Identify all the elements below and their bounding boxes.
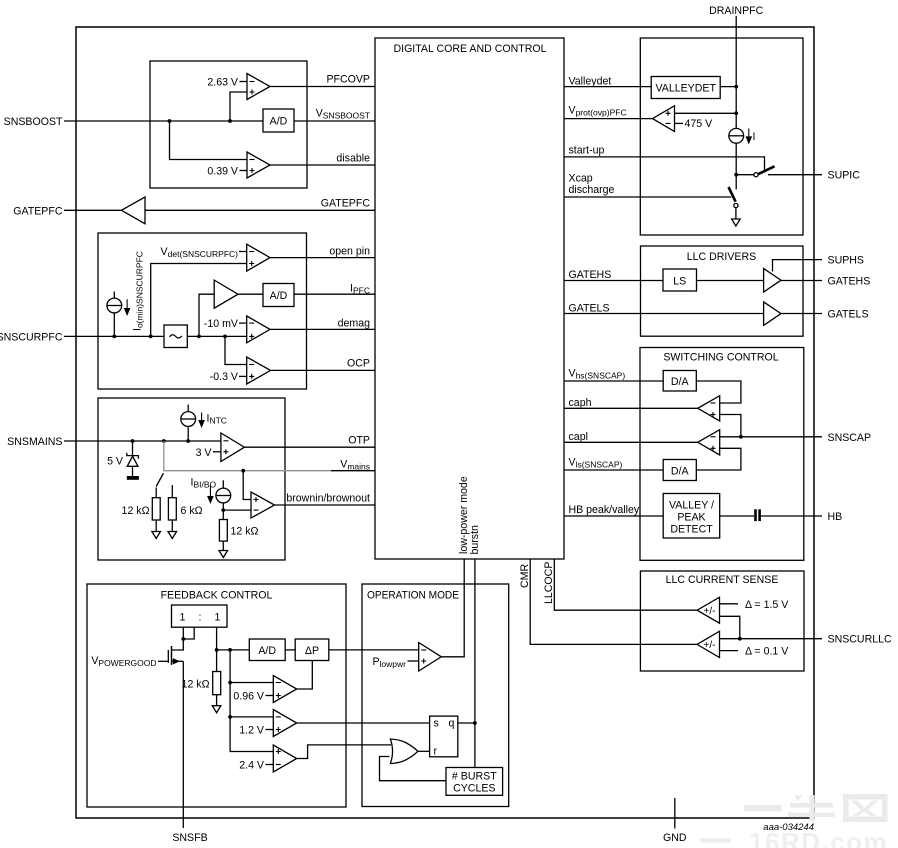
svg-text::: : xyxy=(199,612,202,624)
wire 0.39V lead xyxy=(240,170,248,172)
IC outer boundary xyxy=(76,27,814,818)
wire GATELS out xyxy=(781,313,822,315)
svg-text:s: s xyxy=(434,718,439,730)
wire 1.2 minus xyxy=(230,716,273,718)
wire LS to driver xyxy=(697,280,764,282)
wire Vmains gray riser xyxy=(164,441,331,471)
wire capl xyxy=(564,441,698,443)
sign minus 475V comp xyxy=(666,122,671,124)
sign minus caph comp xyxy=(711,402,716,404)
node junction 475V xyxy=(734,111,738,115)
wire Vdet plus riser xyxy=(151,264,247,337)
sign minus 0.39V comp xyxy=(250,159,255,161)
current source INTC stub top xyxy=(187,405,189,412)
sign plus 475V comp xyxy=(666,111,671,116)
svg-text:GATEHS: GATEHS xyxy=(569,269,612,281)
D/A converter low xyxy=(663,460,696,481)
zener diode 5V bar xyxy=(127,453,139,459)
svg-text:12 kΩ: 12 kΩ xyxy=(122,505,150,517)
svg-text:SNSCURPFC: SNSCURPFC xyxy=(0,331,63,343)
wire 6k to ground xyxy=(171,520,173,532)
resistor 12k bi/bo xyxy=(152,498,160,520)
sign plus 1.2V comp xyxy=(276,727,281,732)
LLC current sense block xyxy=(640,571,804,671)
node junction Vmains riser xyxy=(162,439,166,443)
mosfet gate plate xyxy=(167,650,169,663)
wire 2.4V out to OR xyxy=(297,745,391,759)
node junction mosfet drain xyxy=(181,637,185,641)
wire brownin out xyxy=(275,504,376,506)
svg-text:CYCLES: CYCLES xyxy=(453,783,495,795)
switch contact Xcap xyxy=(734,203,738,207)
wire Vls(SNSCAP) xyxy=(564,469,663,471)
wire disable xyxy=(270,164,375,166)
sign plus Vdet comp xyxy=(249,261,254,266)
wire GATELS core to driver xyxy=(564,313,764,315)
svg-text:+/-: +/- xyxy=(704,606,716,617)
wire VALLEYDET to drain xyxy=(720,86,736,88)
svg-text:Δ = 0.1 V: Δ = 0.1 V xyxy=(745,646,789,658)
watermark yi bar xyxy=(744,805,782,812)
wire 1:1 left pin U loop xyxy=(183,627,194,639)
wire Valleydet xyxy=(564,86,651,88)
svg-text:burstn: burstn xyxy=(469,525,481,555)
sign plus 2.63V comp xyxy=(250,90,255,95)
node junction 1.2 tap xyxy=(228,715,232,719)
mosfet gate lead xyxy=(158,660,168,662)
svg-text:5 V: 5 V xyxy=(107,456,124,468)
wire SNSMAINS main xyxy=(64,440,221,442)
wire low-power mode riser xyxy=(441,559,464,657)
wire demag out xyxy=(270,328,375,330)
sign minus 0.96V comp xyxy=(276,682,281,684)
wire 12k to ground xyxy=(155,520,157,532)
sign plus OCP comp xyxy=(249,374,254,379)
arrow I direction xyxy=(746,129,751,143)
wire GND stub xyxy=(674,798,676,829)
wire OR out to r xyxy=(418,750,430,752)
svg-text:SUPIC: SUPIC xyxy=(828,170,861,182)
svg-text:VALLEY /: VALLEY / xyxy=(669,500,714,512)
wire to 2.63V plus input xyxy=(230,92,247,121)
VALLEYDET box xyxy=(651,77,720,99)
wire Vdet lead xyxy=(239,251,247,253)
wire burst feedback loop xyxy=(380,757,447,781)
D/A converter high xyxy=(663,371,696,392)
current source HV xyxy=(729,128,744,143)
svg-text:SNSCAP: SNSCAP xyxy=(828,432,872,444)
svg-text:Valleydet: Valleydet xyxy=(569,76,612,88)
wire SNSCURLLC xyxy=(720,638,823,640)
svg-text:GND: GND xyxy=(663,832,687,844)
switching control block xyxy=(640,348,804,561)
comparator 0.39V xyxy=(247,152,270,178)
svg-text:GATEHS: GATEHS xyxy=(828,276,871,288)
svg-text:start-up: start-up xyxy=(569,145,605,157)
wire detect to cap xyxy=(720,515,754,517)
wire burstn line xyxy=(474,559,476,768)
wire LLCOCP xyxy=(554,559,697,610)
sign minus demag comp xyxy=(249,322,254,324)
wire drain below source xyxy=(735,143,737,189)
wire 2.4V lead xyxy=(266,764,274,766)
wire SNSBOOST main xyxy=(64,120,263,122)
wire deltaP to op mode xyxy=(329,649,419,651)
svg-text:A/D: A/D xyxy=(270,116,288,128)
svg-text:A/D: A/D xyxy=(258,645,276,657)
svg-text:SNSMAINS: SNSMAINS xyxy=(7,436,62,448)
arrow Io(min) direction xyxy=(125,299,130,314)
wire IPFC out xyxy=(294,293,375,295)
svg-text:Δ = 1.5 V: Δ = 1.5 V xyxy=(745,599,789,611)
wire 1.2V out to latch s xyxy=(297,722,430,724)
level shifter LS box xyxy=(663,269,697,291)
comparator caph xyxy=(698,396,720,421)
wire capl plus loop xyxy=(696,448,741,470)
comparator Vdet open pin xyxy=(247,244,270,271)
svg-text:GATELS: GATELS xyxy=(569,303,610,315)
svg-text:HB: HB xyxy=(828,511,843,523)
svg-text:q: q xyxy=(449,718,455,730)
node junction fb main xyxy=(215,648,219,652)
svg-text:SNSBOOST: SNSBOOST xyxy=(4,116,63,128)
svg-text:OPERATION MODE: OPERATION MODE xyxy=(367,590,459,602)
svg-text:brownin/brownout: brownin/brownout xyxy=(286,493,370,505)
svg-text:-0.3 V: -0.3 V xyxy=(210,371,239,383)
wire 0.96V out to deltaP xyxy=(297,661,313,690)
node junction current source xyxy=(112,335,116,339)
A/D converter SNSBOOST xyxy=(263,109,294,132)
wire 2.63V lead xyxy=(240,81,248,83)
wire 1.2V lead xyxy=(266,729,274,731)
wire 0.96V lead xyxy=(266,695,274,697)
wire caph xyxy=(564,407,698,409)
sign plus capl comp xyxy=(711,446,716,451)
wire SUPHS riser xyxy=(773,260,823,272)
svg-text:A/D: A/D xyxy=(270,290,288,302)
filter tilde symbol xyxy=(170,335,182,338)
wire OTP out xyxy=(244,446,375,448)
latch SR box xyxy=(430,716,458,757)
node junction burstn q xyxy=(473,721,477,725)
svg-text:DIGITAL CORE AND CONTROL: DIGITAL CORE AND CONTROL xyxy=(393,43,546,55)
wire fb node to A/D xyxy=(217,649,250,651)
buffer GATEHS driver xyxy=(764,269,781,293)
wire PFCOVP xyxy=(270,86,375,88)
mosfet drain lead xyxy=(172,639,184,650)
sign minus 1.2V comp xyxy=(276,716,281,718)
svg-text:SNSFB: SNSFB xyxy=(172,832,207,844)
filter box SNSCURPFC xyxy=(164,325,187,348)
wire VSNSBOOST out xyxy=(294,120,375,122)
comparator demag xyxy=(247,316,270,343)
A/D converter IPFC xyxy=(263,284,294,307)
wire SUPIC xyxy=(768,174,822,176)
svg-text:FEEDBACK CONTROL: FEEDBACK CONTROL xyxy=(161,590,273,602)
node junction 0.96 tap xyxy=(228,681,232,685)
wire node to brownin minus xyxy=(223,509,251,511)
zener diode 5V ground bar xyxy=(127,476,139,480)
wire HB out xyxy=(761,515,822,517)
wire 12k fb ground xyxy=(216,695,218,706)
node junction zener xyxy=(131,439,135,443)
feedback control block xyxy=(87,584,346,807)
svg-text:DRAINPFC: DRAINPFC xyxy=(709,5,763,17)
svg-text:caph: caph xyxy=(569,397,592,409)
switch blade Xcap xyxy=(729,187,736,202)
wire D/A high to caph comp minus xyxy=(696,381,741,403)
svg-text:PEAK: PEAK xyxy=(677,512,705,524)
wire open pin out xyxy=(270,257,375,259)
svg-text:capl: capl xyxy=(569,431,588,443)
wire GATEPFC pin side xyxy=(64,209,121,211)
buffer GATELS driver xyxy=(764,302,781,326)
digital core box xyxy=(375,38,564,559)
comparator Plowpwr xyxy=(419,643,442,672)
svg-text:LLCOCP: LLCOCP xyxy=(543,562,555,604)
sign plus Plowpwr comp xyxy=(421,659,426,664)
sign plus 0.96V comp xyxy=(276,693,281,698)
wire 475V plus to drain xyxy=(675,112,737,114)
amplifier IPFC xyxy=(214,280,238,308)
wire -0.3V lead xyxy=(239,375,247,377)
svg-text:PFCOVP: PFCOVP xyxy=(326,74,370,86)
wire 3V lead xyxy=(213,451,221,453)
node SNSBOOST junction 2 xyxy=(228,119,232,123)
svg-text:16RD.com: 16RD.com xyxy=(749,827,888,848)
svg-text:1: 1 xyxy=(215,612,221,624)
svg-text:GATEPFC: GATEPFC xyxy=(321,198,371,210)
wire delta 0.1 lead xyxy=(720,650,739,652)
svg-text:-10 mV: -10 mV xyxy=(204,318,239,330)
watermark wang character xyxy=(843,794,888,822)
comparator ocp window xyxy=(697,597,719,623)
sign plus 2.4V comp xyxy=(276,749,281,754)
svg-text:DETECT: DETECT xyxy=(670,524,713,536)
wire 12k 2 to ground xyxy=(222,541,224,550)
operation mode block xyxy=(362,584,509,807)
svg-text:1.2 V: 1.2 V xyxy=(239,724,265,736)
comparator brownin/brownout xyxy=(251,492,275,518)
comparator 2.63V xyxy=(247,74,270,100)
svg-text:0.39 V: 0.39 V xyxy=(207,166,239,178)
capacitor HB plate 1 xyxy=(754,509,757,521)
node SNSBOOST junction 1 xyxy=(168,119,172,123)
comparator capl xyxy=(698,430,720,455)
svg-text:# BURST: # BURST xyxy=(452,771,497,783)
wire HB peak/valley xyxy=(564,515,663,517)
sign minus Vdet comp xyxy=(249,251,254,253)
svg-text:SNSCURLLC: SNSCURLLC xyxy=(828,634,893,646)
sign plus OTP comp xyxy=(223,449,228,454)
wire IBI/BO to node xyxy=(222,503,224,510)
svg-text:r: r xyxy=(434,746,438,758)
svg-text:OCP: OCP xyxy=(347,358,370,370)
arrow INTC direction xyxy=(199,413,204,427)
switch blade bi/bo select xyxy=(156,473,163,486)
comparator 0.96V xyxy=(273,676,296,703)
wire DRAINPFC top xyxy=(735,16,737,128)
wire -10mV lead xyxy=(239,322,247,324)
current source IBI/BO stub top xyxy=(222,480,224,488)
wire SNSCURPFC main xyxy=(64,335,164,337)
wire SNSCAP xyxy=(720,436,822,438)
wire OCP out xyxy=(271,369,376,371)
arrow IBI/BO direction xyxy=(208,485,213,503)
SNSCURPFC sense block xyxy=(98,233,307,389)
ground arrow 12k 2 xyxy=(219,551,228,558)
svg-text:6 kΩ: 6 kΩ xyxy=(181,505,203,517)
resistor 12k bi/bo stub xyxy=(155,488,157,498)
A/D converter fb xyxy=(249,639,285,661)
wire INTC to main xyxy=(187,426,189,441)
sign minus 2.4V comp xyxy=(276,764,281,766)
wire caph plus loop xyxy=(720,415,741,437)
node junction INTC xyxy=(186,439,190,443)
wire Xcap switch to ground xyxy=(735,208,737,219)
zener diode 5V stub xyxy=(132,441,134,456)
svg-text:Xcap: Xcap xyxy=(569,173,593,185)
svg-text:HB peak/valley: HB peak/valley xyxy=(569,504,640,516)
wire GATEHS out xyxy=(781,280,822,282)
sign minus Plowpwr comp xyxy=(421,649,426,651)
deltaP box xyxy=(295,639,329,661)
buffer GATEPFC driver xyxy=(121,197,145,224)
svg-text:2.4 V: 2.4 V xyxy=(239,759,265,771)
valley/peak detect box xyxy=(663,494,720,539)
node junction snscurllc xyxy=(738,637,742,641)
wire filter to demag plus xyxy=(187,335,246,337)
svg-text:475 V: 475 V xyxy=(685,118,714,130)
wire Vprot(ovp)PFC xyxy=(564,118,653,120)
wire brownin plus riser xyxy=(243,471,251,500)
node junction comp column xyxy=(228,648,232,652)
svg-text:OTP: OTP xyxy=(348,435,370,447)
svg-text:LLC DRIVERS: LLC DRIVERS xyxy=(687,251,756,263)
wire 475V lead xyxy=(675,122,684,124)
resistor 12k fb xyxy=(213,672,221,695)
ground arrow fb xyxy=(212,706,221,713)
sign plus demag comp xyxy=(249,334,254,339)
node junction valleydet xyxy=(734,85,738,89)
HV start-up block xyxy=(640,38,803,235)
sign minus capl comp xyxy=(711,436,716,438)
watermark niu character xyxy=(788,795,835,821)
wire q to burstn xyxy=(458,722,475,724)
node junction brownin tap xyxy=(241,469,245,473)
svg-text:12 kΩ: 12 kΩ xyxy=(182,679,210,691)
current source Io(min)SNSCURPFC stub top xyxy=(113,292,115,299)
sign plus caph comp xyxy=(711,412,716,417)
wire ocp comp lower input xyxy=(720,616,740,638)
svg-text:ΔP: ΔP xyxy=(305,645,319,657)
wire SNSFB xyxy=(182,661,184,828)
sign minus OTP comp xyxy=(223,440,228,442)
wire start-up xyxy=(564,157,765,172)
svg-text:CMR: CMR xyxy=(519,564,531,588)
zener diode 5V lower stub xyxy=(132,466,134,476)
switch blade SUPIC xyxy=(758,166,775,174)
svg-text:2.63 V: 2.63 V xyxy=(207,77,239,89)
wire Vhs(SNSCAP) xyxy=(564,380,663,382)
SNSMAINS sense block xyxy=(98,398,285,560)
comparator cmr window xyxy=(697,631,719,657)
wire current source to main xyxy=(113,313,115,337)
svg-text:LLC CURRENT SENSE: LLC CURRENT SENSE xyxy=(666,574,779,586)
wire A/D to deltaP xyxy=(285,649,295,651)
node junction OCP tap xyxy=(223,335,227,339)
ground arrow Xcap xyxy=(732,219,741,226)
resistor 12k bi/bo 2 stub xyxy=(222,510,224,519)
wire delta 1.5 lead xyxy=(720,603,739,605)
mosfet source lead xyxy=(172,660,184,662)
wire OCP minus path xyxy=(225,336,247,364)
svg-text:GATELS: GATELS xyxy=(828,309,869,321)
capacitor HB plate 2 xyxy=(758,509,761,521)
sign minus brownin comp xyxy=(254,509,259,511)
mosfet source arrow xyxy=(173,659,179,664)
switch contact SUPIC xyxy=(754,173,758,177)
wire 0.96 minus xyxy=(230,682,273,684)
svg-text:LS: LS xyxy=(673,276,686,288)
wire amp input riser xyxy=(199,294,214,336)
svg-text:disable: disable xyxy=(336,153,370,165)
svg-text:open pin: open pin xyxy=(329,246,370,258)
comparator OCP xyxy=(247,357,271,384)
comparator 2.4V xyxy=(273,745,296,772)
comparator 475V xyxy=(653,106,675,132)
svg-text:12 kΩ: 12 kΩ xyxy=(231,525,259,537)
node junction IBI/BO xyxy=(221,508,225,512)
svg-text:D/A: D/A xyxy=(671,465,690,477)
svg-text:SUPHS: SUPHS xyxy=(828,255,865,267)
burst cycles box xyxy=(446,768,503,796)
wire GATEHS core to LS xyxy=(564,280,663,282)
zener diode 5V triangle xyxy=(127,456,138,466)
wire Plowpwr lead xyxy=(408,660,419,662)
wire comparator column xyxy=(230,650,273,752)
svg-text:0.96 V: 0.96 V xyxy=(233,690,265,702)
wire amp to A/D xyxy=(238,293,263,295)
LLC drivers block xyxy=(641,246,804,336)
comparator 1.2V xyxy=(273,710,296,737)
node junction snscap xyxy=(739,435,743,439)
wire GATEPFC core side xyxy=(145,209,375,211)
sign plus 0.39V comp xyxy=(250,168,255,173)
current source INTC xyxy=(181,412,196,427)
svg-text:GATEPFC: GATEPFC xyxy=(13,205,63,217)
current source Io(min)SNSCURPFC xyxy=(107,298,122,313)
svg-text:SWITCHING CONTROL: SWITCHING CONTROL xyxy=(663,352,778,364)
svg-text:VALLEYDET: VALLEYDET xyxy=(655,83,716,95)
svg-text:3 V: 3 V xyxy=(196,447,213,459)
wire to switch contact xyxy=(736,174,754,176)
node junction amp riser xyxy=(197,335,201,339)
svg-text:discharge: discharge xyxy=(569,184,615,196)
OR gate burst xyxy=(390,739,418,764)
wire Xcap discharge xyxy=(564,196,731,198)
resistor 6k stub xyxy=(171,485,173,498)
ground arrow 12k xyxy=(152,532,161,539)
wire CMR xyxy=(530,559,697,644)
sign minus OCP comp xyxy=(249,364,254,366)
node junction Vdet riser xyxy=(149,335,153,339)
SNSBOOST sense block xyxy=(150,61,307,188)
svg-text:demag: demag xyxy=(338,318,370,330)
svg-text:I: I xyxy=(753,131,756,143)
wire Vmains black segment xyxy=(331,470,375,472)
svg-text:1: 1 xyxy=(180,612,186,624)
